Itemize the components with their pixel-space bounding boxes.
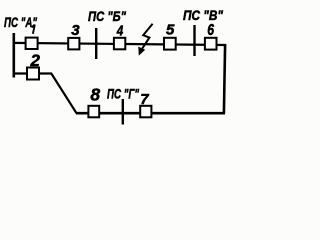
svg-text:2: 2 [29,51,40,70]
svg-text:8: 8 [90,85,100,105]
svg-text:5: 5 [166,22,175,39]
svg-text:3: 3 [71,22,80,39]
svg-text:4: 4 [116,23,124,40]
svg-text:7: 7 [140,91,149,108]
svg-text:6: 6 [207,22,214,39]
svg-text:ПС "Б": ПС "Б" [88,8,126,24]
svg-text:ПС "В": ПС "В" [183,7,223,23]
svg-text:ПС "Г": ПС "Г" [107,85,139,101]
